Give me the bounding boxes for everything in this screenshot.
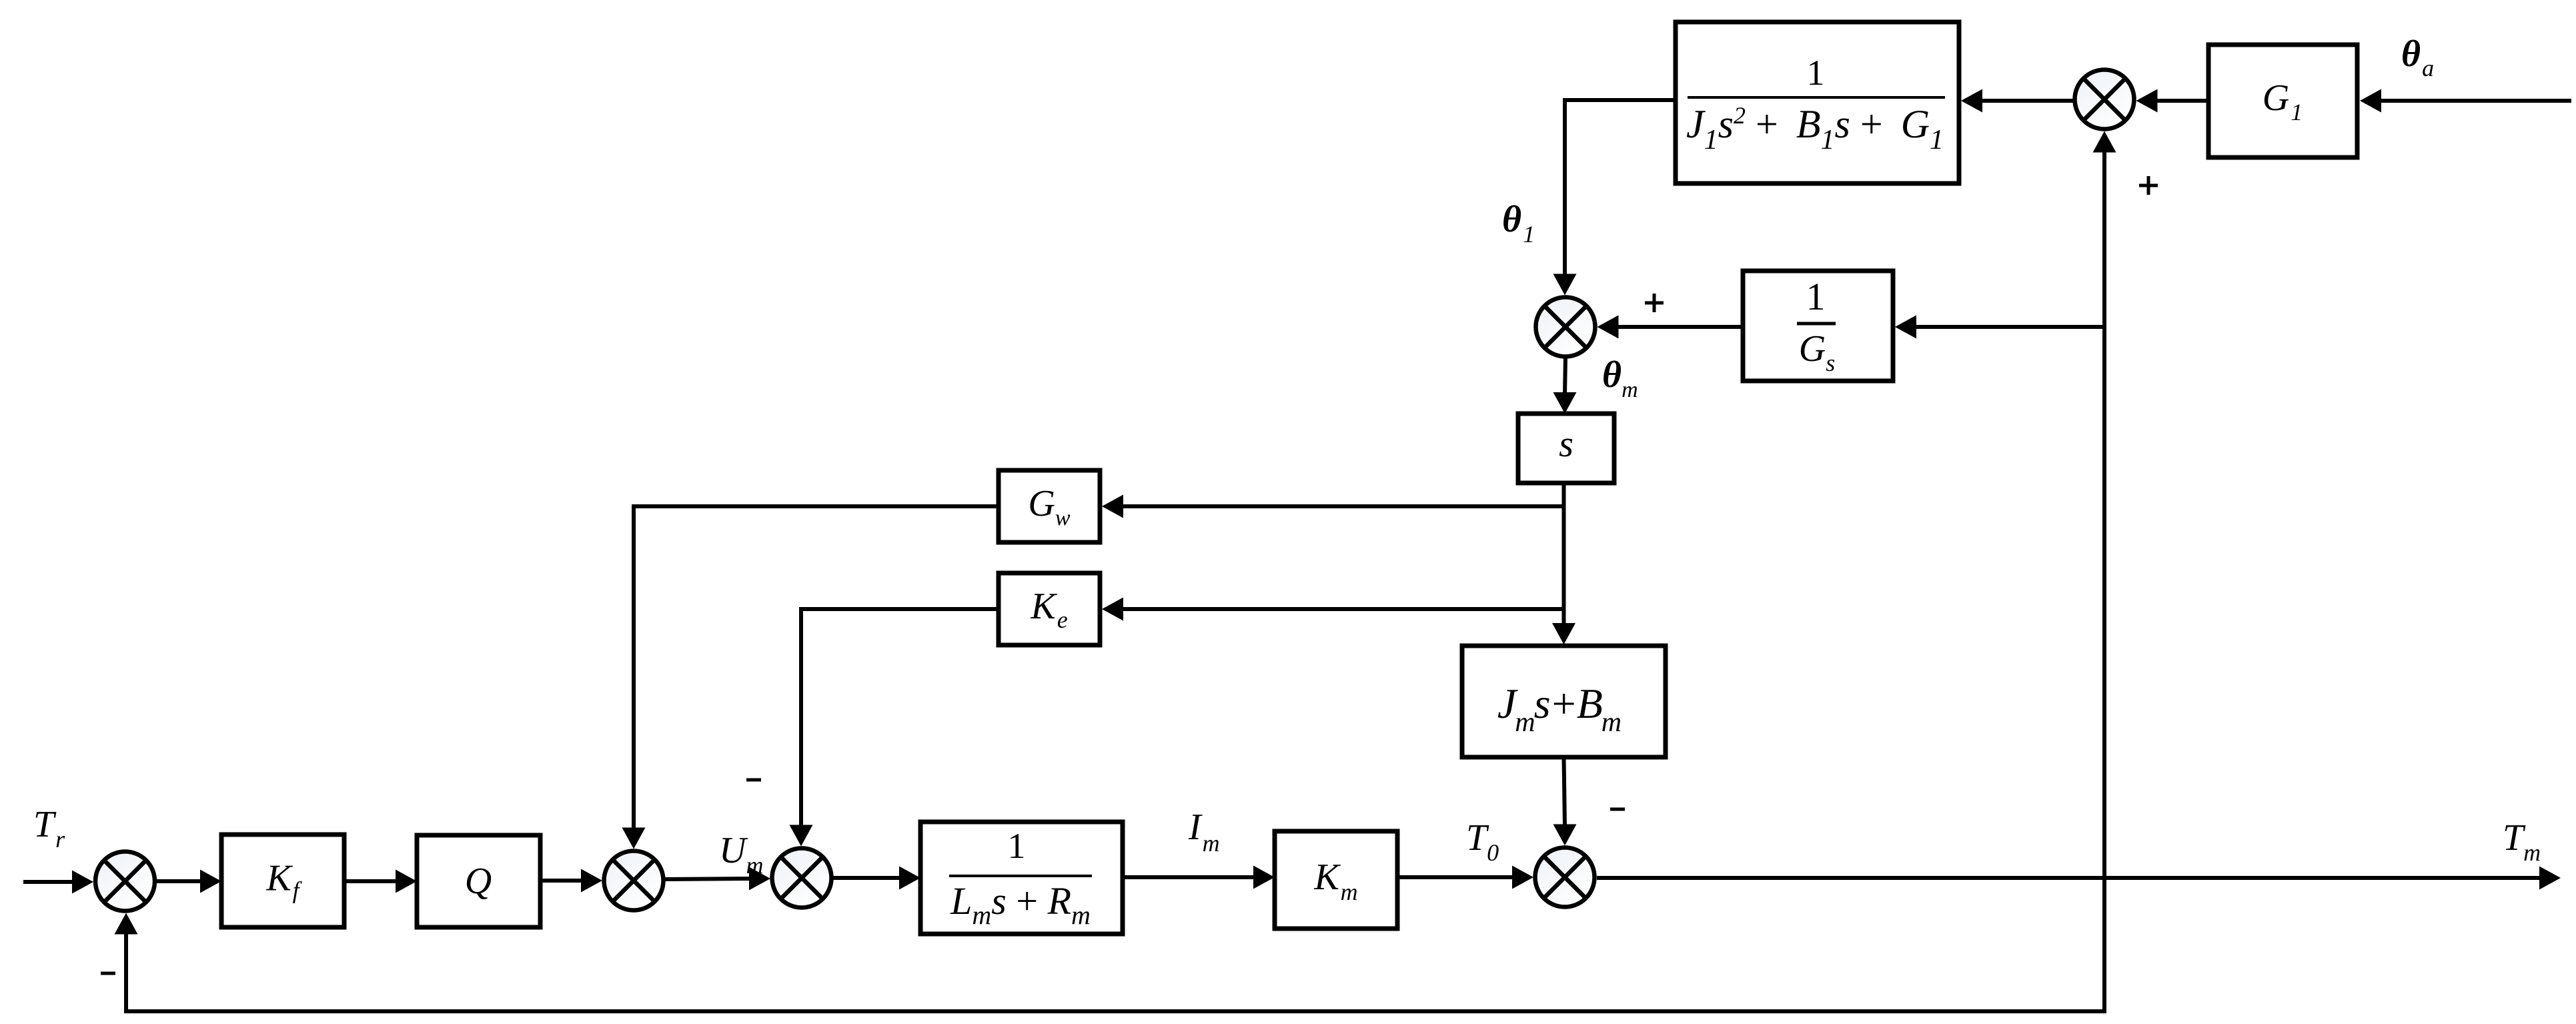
block 1/(J1s2+B1s+G1) (1676, 22, 1959, 183)
block Gw (999, 470, 1100, 542)
wire S4 to output Tm (1597, 876, 2542, 880)
svg-text:1: 1 (1806, 275, 1826, 318)
summing junction S2 (604, 851, 664, 911)
summing junction S6 (top right) (2075, 70, 2134, 129)
wire Gw down into S2 (634, 504, 999, 508)
sign minus at bottom feedback into S1 (101, 972, 115, 975)
block Km (1275, 831, 1397, 929)
summing junction S3 (772, 849, 832, 908)
wire Jms+Bm down into S4 (minus) (1564, 757, 1565, 827)
block Jms+Bm (1462, 646, 1666, 757)
wire G1 to summing junction S6 (2155, 99, 2209, 103)
summing junction S5 (theta_1 + theta_m) (1536, 298, 1595, 357)
block 1/(Lms+Rm) (920, 822, 1123, 934)
wire Km to summing junction S4 (T0) (1397, 875, 1515, 879)
wire bottom feedback up into S1 (minus) (124, 932, 128, 1013)
block s (1518, 414, 1614, 483)
wire s down to block Jms+Bm (1562, 483, 1566, 626)
sign plus at S6 input (2139, 184, 2158, 187)
svg-text:s: s (1559, 424, 1573, 465)
wire right feedback vertical up into S6 (plus) (2102, 150, 2106, 1014)
block 1/Gs (1743, 271, 1893, 381)
block Q (417, 835, 540, 927)
wire S5 to block s (theta_m) (1565, 357, 1565, 396)
sign minus at Ke feedback into S3 (746, 779, 761, 782)
block Ke (999, 573, 1100, 645)
svg-text:Lms + Rm: Lms + Rm (950, 879, 1091, 930)
wire 1/Gs to summing junction S5 (plus) (1616, 325, 1744, 329)
wire Kf to block Q (344, 879, 398, 883)
sign plus at S5 input (1645, 302, 1664, 305)
svg-text:Q: Q (465, 861, 492, 902)
wire Ke down into S3 (minus) (801, 607, 999, 611)
wire branch into block Ke (1121, 607, 1566, 611)
wire S2 to summing junction S3 (Um) (665, 879, 752, 879)
wire feedback branch into block 1/Gs (1914, 325, 2106, 329)
svg-text:1: 1 (1807, 53, 1825, 93)
summing junction S1 (95, 852, 155, 911)
summing junction S4 (1535, 848, 1595, 907)
wire S1 to block Kf (157, 879, 203, 883)
wire branch into block Gw (1121, 504, 1566, 508)
block G1 (2208, 45, 2357, 157)
wire 1/(Lms+Rm) to block Km (Im) (1123, 875, 1256, 879)
wire S6 to block 1/(J1s2+B1s+G1) (1980, 99, 2073, 103)
wire Q to summing junction S2 (540, 879, 584, 883)
wire theta_a input into block G1 (2379, 99, 2571, 103)
wire S3 to block 1/(Lms+Rm) (833, 876, 902, 880)
wire theta_1 from 1/(J1s2+B1s+G1) down into S5 (1565, 98, 1676, 102)
svg-text:1: 1 (1008, 826, 1026, 866)
block Kf (221, 835, 344, 927)
wire Tr input into summing junction S1 (23, 880, 75, 884)
wire bottom feedback horizontal (124, 1009, 2106, 1013)
sign minus at Jms+Bm into S4 (1610, 808, 1625, 811)
